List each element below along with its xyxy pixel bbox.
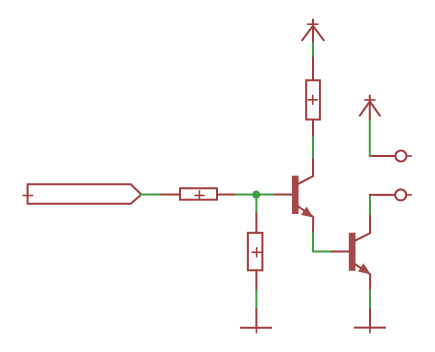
ground GND1 pin xyxy=(255,309,257,328)
transistor Q1 base bar xyxy=(292,176,299,214)
connector P1 circle xyxy=(395,151,406,162)
resistor R1 body xyxy=(180,188,217,199)
ground GND1 bar xyxy=(241,327,271,329)
ground GND1 origin stub xyxy=(255,328,257,333)
wire R2 to Q1 collector xyxy=(312,137,314,157)
power symbol VCC1 crossbar xyxy=(308,23,318,25)
wire VCC1 to R2 xyxy=(312,43,314,58)
connector P1 pin line xyxy=(370,155,395,157)
connector P2 pin line xyxy=(370,194,394,196)
wire Q2 emitter to ground xyxy=(369,291,371,310)
resistor R1 right pin xyxy=(217,194,236,196)
wire R3 to ground xyxy=(255,291,257,310)
transistor Q1 collector xyxy=(299,158,313,184)
transistor Q2 base pin xyxy=(332,251,349,253)
resistor R1 left pin xyxy=(161,194,180,196)
transistor Q2 emitter arrow xyxy=(358,263,371,274)
label origin cross xyxy=(23,191,32,200)
resistor R1 origin cross xyxy=(195,191,204,200)
junction node A xyxy=(252,191,260,199)
transistor Q1 emitter arrow xyxy=(301,207,314,218)
resistor R3 top pin xyxy=(255,214,257,233)
power symbol VCC2 pin xyxy=(369,96,371,119)
power symbol VCC1 pin xyxy=(312,20,314,43)
transistor Q1 base pin xyxy=(274,194,292,196)
connector P2 circle xyxy=(395,189,406,200)
transistor Q2 emitter xyxy=(356,264,371,290)
ground GND2 bar xyxy=(355,327,385,329)
resistor R2 bottom pin xyxy=(312,120,314,138)
ground GND2 pin xyxy=(369,309,371,327)
hierarchical label flag xyxy=(28,184,142,204)
power symbol VCC1 arrow wings xyxy=(302,26,323,40)
wire Q2 collector up to connector row xyxy=(369,195,371,214)
wire VCC2 arrow to connector P1 xyxy=(369,118,371,156)
resistor R3 bottom pin xyxy=(255,270,257,290)
transistor Q2 base bar xyxy=(349,233,356,271)
wire junction down to R3 xyxy=(255,195,257,214)
resistor R2 top pin xyxy=(312,58,314,81)
connector P2 right tick xyxy=(407,194,411,196)
power symbol VCC2 crossbar xyxy=(365,99,375,101)
ground GND2 origin stub xyxy=(369,328,371,333)
resistor R2 body xyxy=(306,80,320,119)
power symbol VCC2 arrow wings xyxy=(360,102,380,116)
resistor R2 origin cross xyxy=(308,96,317,105)
transistor Q2 collector xyxy=(356,214,371,240)
wire Q1 emitter to Q2 base xyxy=(313,233,332,252)
resistor R3 body xyxy=(248,233,263,270)
connector P1 right tick xyxy=(407,155,411,157)
transistor Q1 emitter xyxy=(299,207,314,233)
wire R1 to junction to Q1 base xyxy=(236,194,274,196)
resistor R3 origin cross xyxy=(252,248,261,257)
wire label to R1 xyxy=(141,194,161,196)
